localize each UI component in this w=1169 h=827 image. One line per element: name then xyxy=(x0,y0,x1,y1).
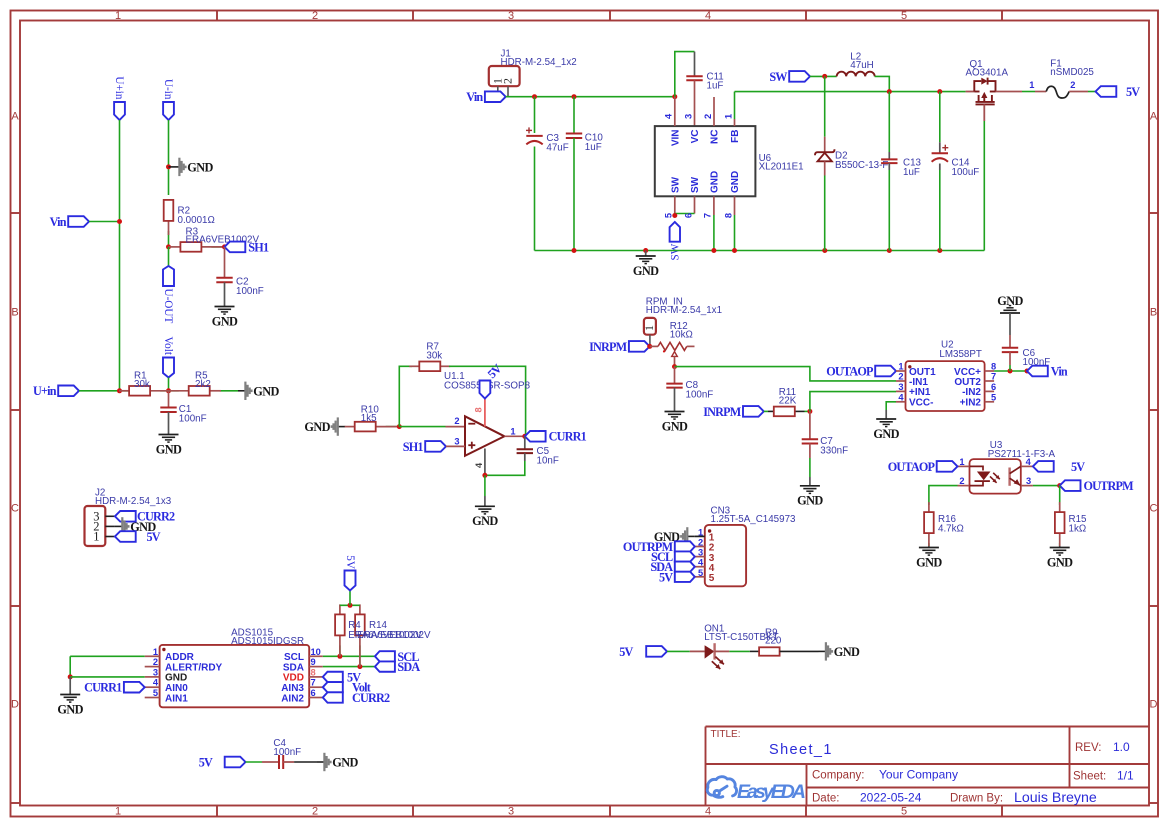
svg-text:1: 1 xyxy=(642,325,656,331)
svg-text:1uF: 1uF xyxy=(707,81,724,92)
svg-text:Vin: Vin xyxy=(1051,364,1068,378)
svg-text:INRPM: INRPM xyxy=(703,405,742,419)
svg-text:A: A xyxy=(1150,111,1158,123)
svg-text:47uF: 47uF xyxy=(546,143,568,154)
svg-text:100nF: 100nF xyxy=(236,286,264,297)
svg-text:5V: 5V xyxy=(1071,460,1085,474)
svg-text:1: 1 xyxy=(153,647,158,657)
svg-text:3: 3 xyxy=(153,667,158,677)
svg-text:U+in: U+in xyxy=(33,384,57,398)
svg-text:30k: 30k xyxy=(426,351,442,362)
svg-text:10: 10 xyxy=(311,647,321,657)
svg-text:3: 3 xyxy=(698,548,703,558)
svg-text:4: 4 xyxy=(898,392,904,402)
svg-text:5: 5 xyxy=(991,392,996,402)
svg-text:1uF: 1uF xyxy=(903,167,920,178)
svg-text:1/1: 1/1 xyxy=(1117,769,1134,783)
svg-text:1: 1 xyxy=(723,114,733,119)
svg-text:2: 2 xyxy=(1070,80,1075,90)
svg-text:100nF: 100nF xyxy=(1023,357,1051,368)
svg-text:1: 1 xyxy=(1029,80,1034,90)
svg-text:4: 4 xyxy=(474,462,484,468)
svg-text:SDA: SDA xyxy=(397,660,420,674)
svg-text:Sheet:: Sheet: xyxy=(1073,771,1106,783)
svg-text:Your Company: Your Company xyxy=(879,768,958,782)
svg-text:5V: 5V xyxy=(619,645,633,659)
svg-text:2: 2 xyxy=(501,78,515,84)
svg-text:2: 2 xyxy=(312,10,318,22)
svg-text:Drawn By:: Drawn By: xyxy=(950,793,1003,805)
svg-text:8: 8 xyxy=(991,362,996,372)
svg-text:SW: SW xyxy=(769,70,787,84)
svg-text:7: 7 xyxy=(991,372,996,382)
svg-text:VC: VC xyxy=(690,130,701,144)
svg-text:5: 5 xyxy=(709,573,715,584)
svg-text:VIN: VIN xyxy=(670,130,681,147)
svg-text:47uH: 47uH xyxy=(850,60,873,71)
svg-text:3: 3 xyxy=(508,806,514,818)
svg-text:GND: GND xyxy=(710,171,721,193)
svg-text:AO3401A: AO3401A xyxy=(966,68,1009,79)
svg-text:4: 4 xyxy=(705,10,711,22)
svg-text:CURR2: CURR2 xyxy=(352,691,390,705)
svg-text:D: D xyxy=(1150,699,1158,711)
svg-text:22K: 22K xyxy=(779,396,797,407)
svg-text:ERA6VEB1002V: ERA6VEB1002V xyxy=(357,630,431,641)
svg-text:8: 8 xyxy=(311,667,316,677)
svg-text:8: 8 xyxy=(474,407,484,412)
svg-text:0.0001Ω: 0.0001Ω xyxy=(178,215,215,226)
svg-text:1.0: 1.0 xyxy=(1113,740,1130,754)
svg-text:2: 2 xyxy=(454,416,459,426)
svg-text:1k5: 1k5 xyxy=(361,413,377,424)
svg-text:CURR1: CURR1 xyxy=(84,681,122,695)
svg-text:1: 1 xyxy=(115,806,121,818)
svg-text:2: 2 xyxy=(698,538,703,548)
svg-text:Sheet_1: Sheet_1 xyxy=(769,742,833,758)
svg-text:1.25T-5A_C145973: 1.25T-5A_C145973 xyxy=(711,514,797,525)
svg-text:OUT2: OUT2 xyxy=(954,377,981,388)
svg-text:HDR-M-2.54_1x1: HDR-M-2.54_1x1 xyxy=(646,305,722,316)
svg-text:10nF: 10nF xyxy=(537,455,559,466)
svg-text:+IN1: +IN1 xyxy=(909,387,931,398)
svg-text:SW: SW xyxy=(669,243,681,260)
svg-text:C: C xyxy=(1150,503,1158,515)
svg-text:2: 2 xyxy=(898,372,903,382)
svg-text:GND: GND xyxy=(472,514,498,528)
svg-text:SW: SW xyxy=(690,176,701,193)
svg-text:OUTAOP: OUTAOP xyxy=(888,460,936,474)
svg-text:7: 7 xyxy=(703,213,713,218)
svg-text:6: 6 xyxy=(991,382,996,392)
svg-text:-IN1: -IN1 xyxy=(909,377,928,388)
svg-text:4: 4 xyxy=(664,113,674,119)
svg-text:D: D xyxy=(11,699,19,711)
svg-text:4: 4 xyxy=(705,806,711,818)
svg-text:1: 1 xyxy=(898,362,903,372)
svg-text:B: B xyxy=(1150,307,1157,319)
svg-text:SW: SW xyxy=(670,176,681,193)
svg-text:GND: GND xyxy=(873,427,899,441)
svg-text:GND: GND xyxy=(1047,555,1073,569)
svg-text:3: 3 xyxy=(508,10,514,22)
svg-text:1kΩ: 1kΩ xyxy=(1069,523,1087,534)
svg-text:GND: GND xyxy=(730,171,741,193)
svg-text:3: 3 xyxy=(683,114,693,119)
svg-text:GND: GND xyxy=(253,384,279,398)
svg-text:NC: NC xyxy=(710,130,721,144)
svg-text:5V: 5V xyxy=(344,555,356,569)
svg-text:5: 5 xyxy=(153,688,158,698)
svg-text:30k: 30k xyxy=(134,379,150,390)
svg-text:PS2711-1-F3-A: PS2711-1-F3-A xyxy=(988,449,1056,460)
svg-text:GND: GND xyxy=(797,494,823,508)
svg-text:9: 9 xyxy=(311,657,316,667)
svg-text:LM358PT: LM358PT xyxy=(939,349,981,360)
svg-text:1: 1 xyxy=(115,10,121,22)
svg-text:100nF: 100nF xyxy=(179,414,207,425)
svg-text:Louis Breyne: Louis Breyne xyxy=(1014,790,1097,806)
svg-text:3: 3 xyxy=(454,436,459,446)
svg-text:A: A xyxy=(11,111,19,123)
svg-text:5V: 5V xyxy=(659,570,673,584)
svg-text:1: 1 xyxy=(93,530,99,544)
svg-text:3: 3 xyxy=(1026,476,1031,486)
svg-text:FB: FB xyxy=(730,130,741,143)
svg-text:Company:: Company: xyxy=(812,770,864,782)
svg-text:OUTRPM: OUTRPM xyxy=(1084,479,1135,493)
svg-text:100nF: 100nF xyxy=(686,390,714,401)
svg-text:2: 2 xyxy=(153,657,158,667)
svg-text:TITLE:: TITLE: xyxy=(711,729,741,740)
svg-text:100uF: 100uF xyxy=(952,167,980,178)
svg-text:AIN2: AIN2 xyxy=(281,693,304,704)
svg-text:6: 6 xyxy=(683,213,693,218)
svg-text:REV:: REV: xyxy=(1075,742,1101,754)
svg-text:GND: GND xyxy=(156,442,182,456)
svg-text:Volt: Volt xyxy=(162,337,174,356)
svg-text:2: 2 xyxy=(703,114,713,119)
svg-text:10kΩ: 10kΩ xyxy=(670,330,693,341)
svg-text:2: 2 xyxy=(312,806,318,818)
svg-text:Vin: Vin xyxy=(50,215,67,229)
svg-text:U-OUT: U-OUT xyxy=(162,289,174,324)
svg-text:XL2011E1: XL2011E1 xyxy=(759,162,804,173)
svg-text:GND: GND xyxy=(662,419,688,433)
svg-text:5V: 5V xyxy=(1126,85,1140,99)
svg-text:Date:: Date: xyxy=(812,793,840,805)
svg-text:VCC-: VCC- xyxy=(909,398,933,409)
svg-text:1: 1 xyxy=(510,426,515,436)
svg-text:2022-05-24: 2022-05-24 xyxy=(860,791,922,805)
svg-text:AIN1: AIN1 xyxy=(165,693,188,704)
svg-text:GND: GND xyxy=(187,161,213,175)
svg-text:Vin: Vin xyxy=(466,90,483,104)
svg-text:GND: GND xyxy=(57,702,83,716)
svg-text:nSMD025: nSMD025 xyxy=(1050,67,1094,78)
svg-text:CURR1: CURR1 xyxy=(549,430,587,444)
svg-text:1: 1 xyxy=(698,527,703,537)
svg-text:4: 4 xyxy=(1026,457,1032,467)
svg-text:1: 1 xyxy=(959,457,964,467)
svg-text:220: 220 xyxy=(765,636,782,647)
svg-text:INRPM: INRPM xyxy=(589,340,628,354)
svg-text:B: B xyxy=(11,307,18,319)
svg-text:GND: GND xyxy=(916,555,942,569)
svg-text:GND: GND xyxy=(834,645,860,659)
svg-text:U-in: U-in xyxy=(162,79,174,100)
svg-text:GND: GND xyxy=(304,420,330,434)
svg-text:4: 4 xyxy=(698,558,704,568)
svg-text:330nF: 330nF xyxy=(820,446,848,457)
svg-text:GND: GND xyxy=(633,264,659,278)
svg-text:SH1: SH1 xyxy=(248,240,269,254)
svg-text:HDR-M-2.54_1x3: HDR-M-2.54_1x3 xyxy=(95,496,172,507)
svg-text:SH1: SH1 xyxy=(403,440,424,454)
svg-text:8: 8 xyxy=(723,213,733,218)
svg-text:-IN2: -IN2 xyxy=(962,387,981,398)
svg-text:100nF: 100nF xyxy=(273,747,301,758)
svg-text:B550C-13-F: B550C-13-F xyxy=(835,160,888,171)
svg-text:C: C xyxy=(11,503,19,515)
svg-text:5: 5 xyxy=(901,10,907,22)
svg-text:GND: GND xyxy=(332,756,358,770)
svg-text:7: 7 xyxy=(311,678,316,688)
svg-text:2k2: 2k2 xyxy=(195,379,211,390)
svg-text:EasyEDA: EasyEDA xyxy=(737,781,806,803)
svg-text:U+in: U+in xyxy=(113,76,125,99)
svg-text:5: 5 xyxy=(664,213,674,218)
svg-text:GND: GND xyxy=(997,294,1023,308)
svg-text:5V: 5V xyxy=(199,755,213,769)
svg-text:1uF: 1uF xyxy=(585,142,602,153)
svg-text:4: 4 xyxy=(153,678,159,688)
svg-text:5: 5 xyxy=(901,806,907,818)
svg-text:3: 3 xyxy=(898,382,903,392)
svg-text:OUTAOP: OUTAOP xyxy=(826,364,874,378)
svg-text:2: 2 xyxy=(959,476,964,486)
svg-text:5: 5 xyxy=(698,568,703,578)
svg-text:6: 6 xyxy=(311,688,316,698)
svg-text:+IN2: +IN2 xyxy=(960,398,982,409)
svg-text:4.7kΩ: 4.7kΩ xyxy=(938,523,964,534)
svg-text:GND: GND xyxy=(212,314,238,328)
svg-text:5V: 5V xyxy=(147,530,161,544)
